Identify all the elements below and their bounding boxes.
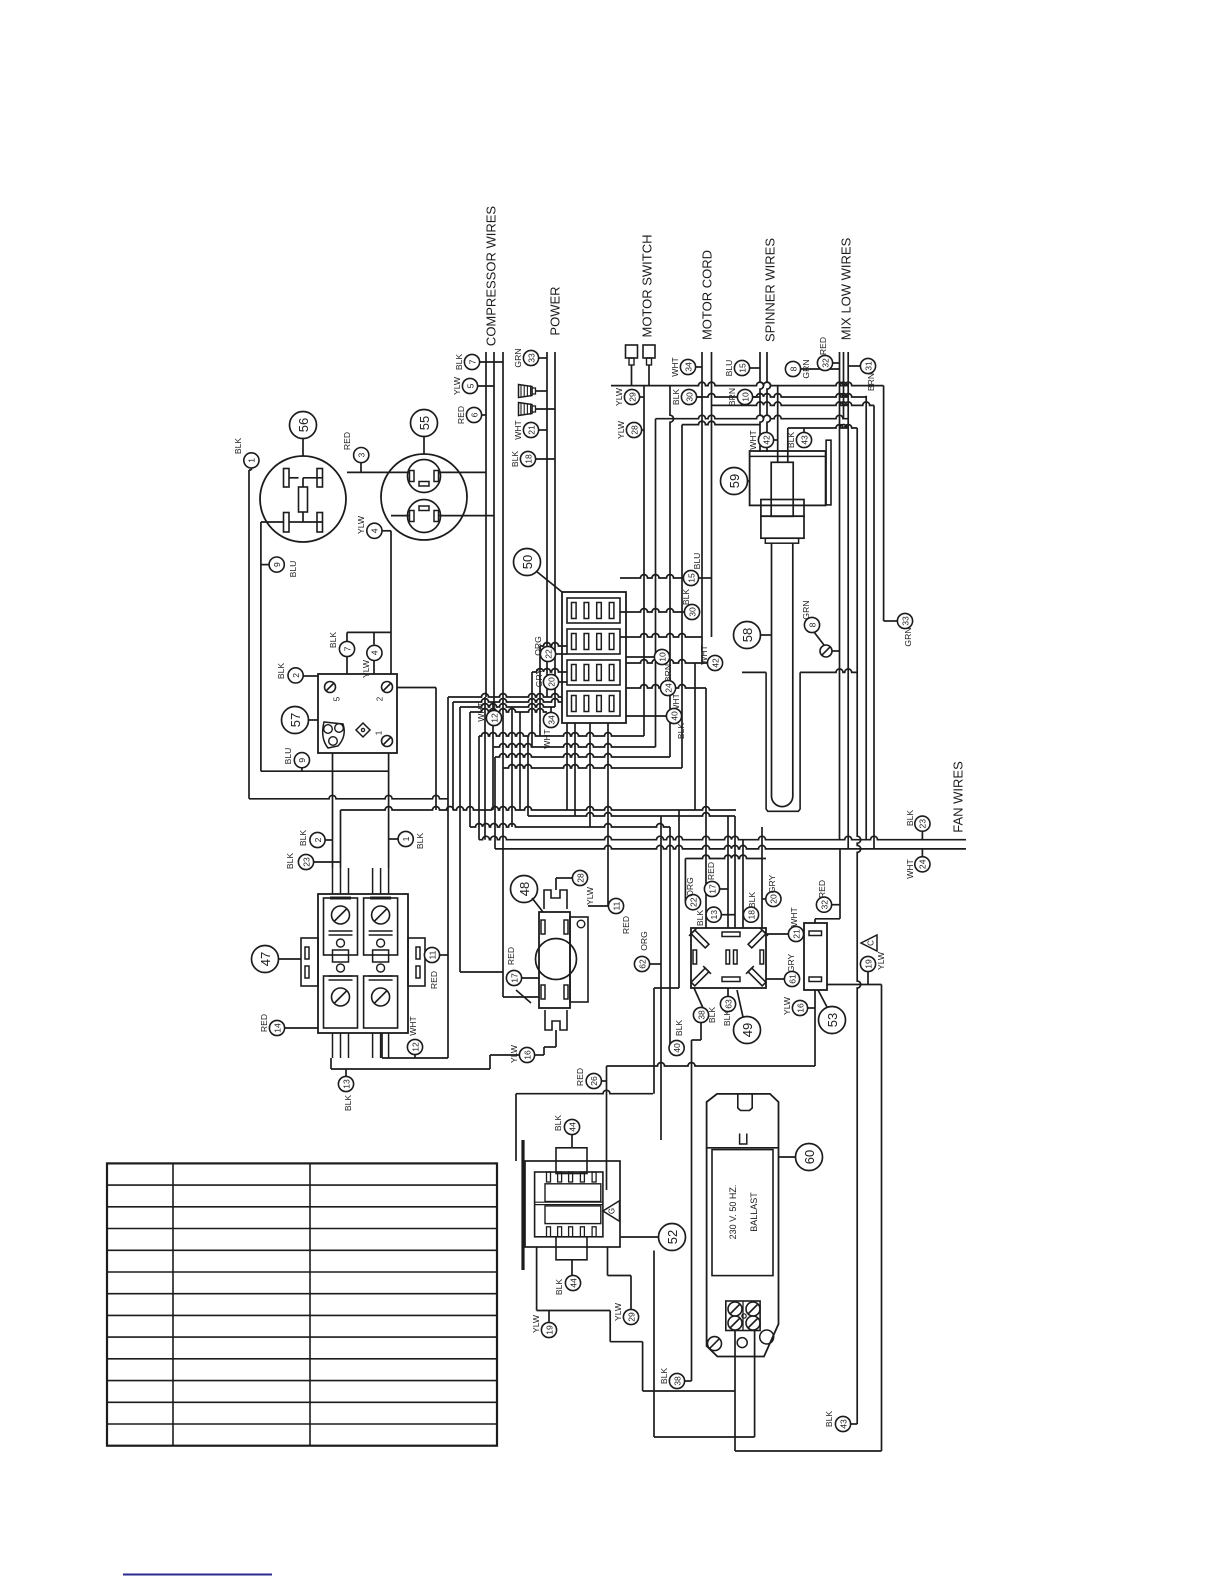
svg-text:59: 59 (727, 474, 742, 488)
svg-text:BLU: BLU (283, 748, 293, 765)
node 40 BLK (669, 1040, 684, 1055)
wire vertical x644 (643, 386, 645, 736)
fan wire 2 WHT24 (495, 845, 966, 848)
svg-text:BLK: BLK (824, 1411, 834, 1428)
wire mix-low bus x848 (847, 352, 849, 849)
node 18 BLK (743, 907, 758, 922)
transformer bottom housing (556, 1237, 587, 1260)
svg-text:14: 14 (272, 1023, 282, 1033)
wire stub node33 (538, 357, 547, 359)
svg-text:4: 4 (370, 650, 380, 655)
wire y1275 (608, 1275, 632, 1277)
node 29 YLW (624, 389, 639, 404)
wire vert x528 (527, 736, 529, 816)
wire x654 down (653, 1251, 655, 1438)
node 16 YLW (792, 1000, 807, 1015)
wire jog y747 (493, 744, 656, 748)
svg-text:22: 22 (543, 649, 553, 659)
svg-text:GRY: GRY (534, 668, 544, 687)
contactor prong (340, 1033, 342, 1058)
wire to 16a (490, 1054, 519, 1056)
svg-text:13: 13 (341, 1079, 351, 1089)
svg-text:32: 32 (819, 900, 829, 910)
svg-text:53: 53 (825, 1013, 840, 1027)
leader 50 (536, 571, 562, 592)
wire staircase v1 (609, 1311, 611, 1342)
pin (317, 469, 323, 488)
overload 57 diamond (356, 723, 370, 737)
wire stub node20 (559, 681, 567, 683)
wire vert x706 (705, 688, 707, 928)
wire 47 pole1 down (330, 1058, 332, 1069)
stub node23a (313, 861, 341, 863)
svg-text:WHT: WHT (542, 728, 552, 748)
node 42 WHT (707, 655, 722, 670)
svg-text:12: 12 (489, 713, 499, 723)
contactor prong (332, 868, 334, 894)
solenoid neck (765, 538, 798, 543)
motor 48 side plate (570, 917, 588, 1002)
ballast label area (712, 1150, 773, 1276)
wire vertical x670 (670, 386, 674, 757)
node 4 YLW (367, 523, 382, 538)
wire to node4b (373, 632, 375, 644)
node 15 BLU (683, 570, 698, 585)
node 43 BLK (835, 1416, 850, 1431)
svg-text:YLW: YLW (509, 1044, 519, 1063)
svg-text:29: 29 (626, 1312, 636, 1322)
pin center (299, 487, 308, 512)
svg-text:30: 30 (684, 392, 694, 402)
wire power bus x555 (554, 352, 556, 707)
wire vert x743 (742, 840, 744, 928)
wire stub node4 (382, 530, 391, 532)
probe 58 (mix low probe tube) (772, 543, 793, 807)
terminal screw 1 (382, 736, 393, 747)
node 2 BLK (288, 668, 303, 683)
node 17 RED (704, 881, 719, 896)
wire stub node2a (303, 675, 318, 677)
wire 43 into solenoid (787, 428, 789, 462)
wire stub node32 (833, 362, 840, 364)
wire transformer-left down (536, 1247, 538, 1310)
wire stub node28 (641, 429, 644, 431)
wire nut stub (536, 408, 556, 410)
wire nut connector (519, 385, 533, 398)
wire spinner bus x767 (767, 352, 771, 452)
contactor prong (348, 868, 350, 894)
svg-text:61: 61 (787, 974, 797, 984)
svg-text:WHT: WHT (699, 644, 709, 664)
svg-text:RED: RED (706, 862, 716, 880)
contactor prong (372, 1033, 374, 1058)
svg-text:BLK: BLK (276, 663, 286, 680)
wire x701 down (700, 1022, 702, 1040)
svg-text:GRN: GRN (903, 627, 913, 646)
svg-text:7: 7 (467, 359, 477, 364)
warning triangle C (861, 935, 877, 951)
wire stub node9b (301, 768, 303, 771)
svg-text:12: 12 (410, 1042, 420, 1052)
wire vert x728 (727, 816, 729, 928)
node 62 ORG (634, 956, 649, 971)
wire x503 low (502, 841, 504, 997)
wire compressor BLK bus x503 (502, 352, 504, 841)
pin link (303, 521, 323, 523)
wire vert x453 (452, 702, 454, 810)
footer link line (123, 1574, 272, 1576)
wire mix-low bus x839 (839, 352, 841, 840)
node 63 BLK (720, 996, 735, 1011)
contactor prong (380, 868, 382, 894)
switch 49 blade (746, 966, 768, 988)
svg-text:2: 2 (313, 837, 323, 842)
component label 47 (252, 946, 279, 973)
node 28 YLW (626, 422, 641, 437)
wire horizontal y419 (656, 415, 849, 419)
svg-text:RED: RED (817, 880, 827, 898)
wire vert x540 (539, 646, 541, 736)
svg-text:GRN: GRN (513, 348, 523, 367)
svg-text:YLW: YLW (782, 996, 792, 1015)
wire y1069 (331, 1068, 490, 1070)
node 32 RED (816, 897, 831, 912)
transformer winding row (545, 1206, 601, 1224)
motor 48 rotor (536, 939, 577, 980)
node 42 WHT (758, 432, 773, 447)
wire jog y757 (495, 754, 670, 758)
node 44 BLK (564, 1119, 579, 1134)
svg-text:31: 31 (863, 361, 873, 371)
node 38 BLK (669, 1373, 684, 1388)
svg-text:YLW: YLW (356, 515, 366, 534)
svg-text:BLK: BLK (674, 1020, 684, 1037)
wire stub node31 (848, 365, 860, 367)
svg-text:16: 16 (522, 1050, 532, 1060)
wire 53 top (814, 919, 816, 923)
wire stub node21 (538, 429, 547, 431)
svg-text:10: 10 (740, 392, 750, 402)
svg-text:40: 40 (669, 711, 679, 721)
wire stub node16b (807, 1007, 815, 1009)
wire vert x485 (484, 697, 486, 840)
svg-text:MOTOR SWITCH: MOTOR SWITCH (640, 234, 655, 337)
motor bottom lead (555, 1030, 557, 1047)
wire x691 to 38b (691, 1040, 693, 1381)
svg-text:23: 23 (301, 857, 311, 867)
wire vert x735 (734, 816, 736, 928)
fan wire 1 BLK23 (479, 836, 966, 839)
leader 52 (621, 1236, 659, 1238)
node 33 GRN (897, 613, 912, 628)
wire stub node7 (479, 361, 503, 363)
wire staircase v2 (642, 1342, 644, 1391)
wire stub node18 (535, 458, 555, 460)
connector 55 upper socket (408, 460, 441, 493)
svg-text:1: 1 (247, 458, 257, 463)
wire relay-left entry y672 (532, 669, 567, 672)
node 11 RED (424, 947, 439, 962)
component label 48 (511, 876, 538, 903)
node 19 YLW (541, 1322, 556, 1337)
wire vert x670b (669, 827, 671, 1048)
component label 56 (290, 412, 317, 439)
wire y1391 (643, 1390, 735, 1392)
svg-text:26: 26 (589, 1076, 599, 1086)
wire band y858 (685, 855, 766, 859)
node 8 GRN (804, 617, 819, 632)
svg-text:32: 32 (820, 358, 830, 368)
wire relay-left entry y646 (540, 643, 567, 646)
svg-text:29: 29 (627, 392, 637, 402)
svg-text:57: 57 (288, 713, 303, 727)
relay 50 contact group (567, 598, 620, 623)
connector 55 lower socket (408, 500, 441, 533)
svg-text:21: 21 (791, 929, 801, 939)
node 38 BLK (693, 1007, 708, 1022)
transformer 52 outline (525, 1161, 620, 1247)
svg-text:BLK: BLK (786, 432, 796, 449)
leader 47 (279, 958, 302, 960)
svg-text:44: 44 (567, 1122, 577, 1132)
relay 50 contact group (567, 660, 620, 685)
well flange right (800, 669, 857, 672)
leader 55 (423, 437, 425, 455)
svg-text:BALLAST: BALLAST (749, 1192, 759, 1232)
wire 42 into solenoid (777, 386, 779, 463)
stub node2b (325, 839, 333, 841)
svg-text:BLK: BLK (343, 1095, 353, 1112)
ground screw (820, 645, 832, 657)
wire x261 down (260, 522, 262, 771)
wire vertical x874 (873, 405, 875, 849)
node 9 BLU (294, 753, 309, 768)
node 22 ORG (540, 646, 555, 661)
wire x840 to 53 (839, 849, 841, 919)
svg-text:YLW: YLW (614, 387, 624, 406)
wire stub node15 (749, 367, 760, 369)
stub node62 (650, 963, 661, 965)
svg-text:WHT: WHT (905, 858, 915, 878)
wire compressor RED bus x486 (485, 352, 487, 697)
wire compressor YLW bus x494 (493, 352, 495, 702)
svg-text:ORG: ORG (639, 931, 649, 951)
wire 55 to bus (439, 515, 495, 517)
wire stub node11a (440, 954, 448, 956)
wire vert x685 to 22b (684, 859, 686, 903)
motor 48 top bracket (544, 890, 567, 909)
probe well (766, 672, 800, 811)
svg-text:11: 11 (427, 950, 437, 959)
relay 50 contact group (567, 629, 620, 654)
node 18 BLK (520, 451, 535, 466)
svg-text:21: 21 (526, 425, 536, 435)
node 21 WHT (788, 926, 803, 941)
switch 49 blade (689, 966, 711, 988)
switch 49 top slot (722, 932, 740, 937)
well flange left (742, 671, 766, 673)
svg-text:FAN WIRES: FAN WIRES (951, 761, 966, 833)
stub node26 (601, 1080, 606, 1082)
svg-text:RED: RED (429, 971, 439, 989)
node 13 BLK (338, 1076, 353, 1091)
leader 60 (779, 1156, 796, 1158)
svg-text:ORG: ORG (533, 636, 543, 656)
ballast top notch (738, 1094, 752, 1111)
svg-text:BLK: BLK (671, 389, 681, 406)
svg-text:POWER: POWER (548, 286, 563, 335)
svg-text:BLU: BLU (288, 561, 298, 578)
connector spade terminal (motor switch) (626, 345, 638, 358)
svg-text:RED: RED (456, 406, 466, 424)
svg-text:3: 3 (357, 452, 367, 457)
node 15 BLU (734, 360, 749, 375)
svg-text:20: 20 (769, 894, 779, 904)
node 28 YLW (572, 870, 587, 885)
node 16 YLW (519, 1047, 534, 1062)
wire stub node3 (360, 463, 362, 473)
svg-text:RED: RED (575, 1068, 585, 1086)
solenoid coil band (761, 500, 804, 517)
node 1 BLK (398, 831, 413, 846)
wire stub node12 (493, 702, 495, 710)
contactor 47 pole (364, 898, 398, 955)
wire vert x493 (492, 702, 494, 810)
wire 57 screw1 to 47 (388, 753, 390, 868)
svg-text:2: 2 (291, 673, 301, 678)
svg-text:47: 47 (258, 952, 273, 966)
svg-text:5: 5 (333, 696, 342, 701)
wire stub node11b (588, 905, 608, 907)
svg-text:30: 30 (687, 607, 697, 617)
svg-text:6: 6 (469, 412, 479, 417)
wire 56 to 55 (347, 471, 410, 473)
wire junction y707 (460, 704, 555, 707)
svg-text:42: 42 (710, 658, 720, 668)
svg-text:BLK: BLK (905, 810, 915, 827)
svg-text:YLW: YLW (876, 951, 886, 970)
component label 52 (659, 1224, 686, 1251)
relay drop x567 (566, 723, 568, 810)
wire 8b to screw (814, 632, 824, 645)
pin link (302, 478, 304, 487)
svg-text:24: 24 (663, 683, 673, 693)
svg-text:2: 2 (376, 696, 385, 701)
svg-text:17: 17 (509, 973, 519, 983)
wire junction y697 (448, 694, 562, 697)
node 12 WHT (486, 710, 501, 725)
wire stub node34 (695, 366, 702, 368)
wire blk43 x857 (857, 428, 861, 1424)
wire stub node33 grn (884, 620, 898, 622)
wire nut stub (536, 390, 548, 392)
svg-text:BLK: BLK (415, 833, 425, 850)
wire 53 bottom down (814, 990, 816, 1066)
svg-text:GRY: GRY (786, 953, 796, 972)
svg-text:BLK: BLK (554, 1279, 564, 1296)
wire vert x695 upper (694, 663, 696, 810)
node 7 BLK (464, 354, 479, 369)
svg-text:YLW: YLW (361, 659, 371, 678)
svg-text:18: 18 (523, 454, 533, 464)
stub node19c (548, 1311, 550, 1322)
svg-text:BLU: BLU (724, 360, 734, 377)
wire stub node10b (626, 656, 654, 658)
wire stub node8 grn (801, 368, 840, 370)
wire x735 low (734, 1391, 736, 1451)
svg-text:15: 15 (686, 573, 696, 583)
wire jog y768 (503, 765, 682, 768)
svg-text:22: 22 (688, 897, 698, 907)
node 17 RED (506, 970, 521, 985)
wire stub node22 (556, 653, 567, 655)
wire junction y702 (453, 699, 562, 702)
svg-text:BLK: BLK (681, 589, 691, 606)
wire x606 into transformer (606, 1066, 608, 1190)
leader 53 (818, 990, 827, 1007)
wire left loop x249 (248, 470, 250, 799)
wire x448 long (447, 697, 449, 1058)
terminal screw 5 (325, 682, 336, 693)
switch 49 bottom slot (722, 977, 740, 982)
svg-text:23: 23 (918, 819, 928, 829)
transformer 52 inner block (535, 1172, 603, 1237)
node 5 YLW (462, 378, 477, 393)
svg-text:17: 17 (707, 884, 717, 894)
svg-text:63: 63 (723, 999, 733, 1009)
svg-text:5: 5 (465, 383, 475, 388)
node 14 RED (269, 1020, 284, 1035)
relay drop x575 (574, 723, 576, 816)
node 13 BLK (706, 907, 721, 922)
ballast 60 outline (707, 1094, 779, 1357)
contactor prong (340, 868, 342, 894)
wire horizontal y397 (696, 394, 866, 398)
svg-text:YLW: YLW (531, 1314, 541, 1333)
stub node12b (414, 1055, 416, 1058)
svg-text:52: 52 (665, 1230, 680, 1244)
stub node44b (571, 1260, 573, 1275)
node 34 WHT (543, 712, 558, 727)
wire stub node29 (640, 396, 644, 398)
svg-text:4: 4 (370, 528, 380, 533)
node 34 WHT (680, 359, 695, 374)
svg-text:BLK: BLK (676, 723, 686, 740)
ballast divider (707, 1147, 779, 1149)
component label 50 (514, 549, 541, 576)
wire 43 horizontal y428 (788, 425, 857, 428)
svg-text:8: 8 (788, 366, 798, 371)
wire relay-right y716 (626, 715, 666, 717)
wire vert x532 (531, 672, 533, 747)
wire to node7b (346, 632, 348, 641)
ballast small tab (740, 1134, 747, 1145)
wire band y816 (528, 813, 735, 816)
leader 59 (748, 480, 750, 482)
wire x881 long (881, 985, 883, 1452)
wire stub node28b (556, 877, 572, 879)
contactor 47 outline (318, 894, 408, 1033)
wire motor-cord bus x702 (701, 352, 703, 663)
connector spade terminal (motor switch) (643, 345, 655, 358)
node 22 ORG (685, 895, 700, 910)
svg-text:SPINNER WIRES: SPINNER WIRES (763, 238, 778, 342)
wire vertical x682 (681, 425, 683, 768)
contactor prong (332, 1033, 334, 1058)
node 29 YLW (623, 1309, 638, 1324)
node 1 BLK (244, 453, 259, 468)
svg-text:28: 28 (629, 425, 639, 435)
